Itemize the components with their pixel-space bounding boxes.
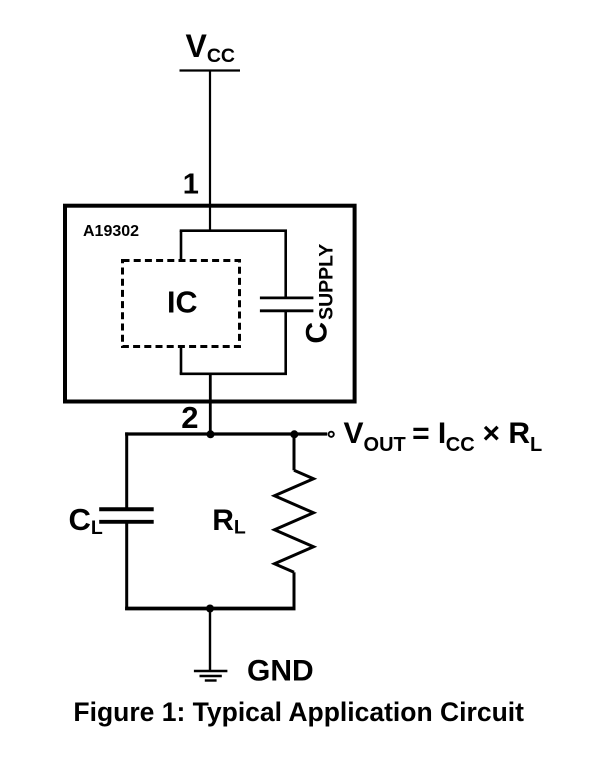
pin 1 label — [183, 169, 199, 201]
wire top inner rail — [180, 229, 287, 232]
IC dashed box — [123, 261, 240, 347]
label CL — [69, 502, 103, 539]
junction dot RL top — [290, 430, 298, 438]
svg-text:CSUPPLY: CSUPPLY — [301, 244, 338, 344]
svg-text:GND: GND — [247, 654, 314, 687]
svg-text:IC: IC — [167, 285, 198, 319]
svg-text:CL: CL — [69, 502, 103, 539]
junction dot ground rail — [206, 605, 214, 613]
wire CL bottom branch — [125, 522, 128, 610]
svg-text:Figure 1: Typical Application: Figure 1: Typical Application Circuit — [73, 697, 524, 727]
caption Figure 1 — [73, 697, 524, 727]
label VOUT formula — [344, 417, 543, 456]
label C_SUPPLY — [301, 244, 338, 344]
svg-text:A19302: A19302 — [83, 223, 139, 240]
wire stub C_SUPPLY bottom — [284, 311, 287, 374]
ground rail — [125, 607, 295, 611]
wire VCC to pin 1 — [209, 71, 211, 205]
output terminal circle — [329, 432, 334, 437]
capacitor CL bottom plate — [99, 520, 154, 524]
capacitor CL top plate — [99, 507, 154, 511]
output node rail — [125, 432, 327, 435]
wire stub to IC top — [180, 231, 183, 260]
svg-text:2: 2 — [181, 400, 198, 435]
package outline A19302 — [65, 206, 355, 402]
wire bottom inner rail — [180, 372, 287, 375]
label GND — [247, 654, 314, 687]
capacitor C_SUPPLY bottom plate — [260, 309, 314, 312]
svg-text:RL: RL — [212, 504, 246, 539]
wire pin 1 into package — [209, 204, 211, 232]
wire stub IC bottom — [180, 347, 183, 374]
junction dot pin 2 node — [207, 430, 215, 438]
wire RL bottom branch — [293, 572, 296, 608]
wire CL top branch — [125, 432, 128, 509]
svg-text:1: 1 — [183, 169, 199, 201]
ground symbol bar 1 — [194, 670, 228, 672]
svg-text:VCC: VCC — [186, 28, 236, 67]
VCC supply terminal bar — [180, 69, 241, 71]
label IC — [167, 285, 198, 319]
ground symbol bar 3 — [205, 679, 217, 681]
capacitor C_SUPPLY top plate — [260, 296, 314, 299]
ground symbol bar 2 — [200, 675, 222, 677]
wire stub C_SUPPLY top — [284, 231, 287, 298]
resistor RL — [275, 470, 314, 572]
svg-text:VOUT = ICC × RL: VOUT = ICC × RL — [344, 417, 543, 456]
wire to ground — [209, 609, 211, 671]
node VCC label — [186, 28, 236, 67]
label RL — [212, 504, 246, 539]
wire IC output to pin 2 — [209, 374, 212, 404]
pin 2 label — [181, 400, 198, 435]
wire RL top branch — [293, 434, 296, 470]
wire pin 2 to output node — [209, 404, 212, 436]
label A19302 — [83, 223, 139, 240]
